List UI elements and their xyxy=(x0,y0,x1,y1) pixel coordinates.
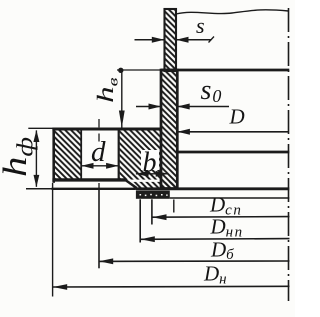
dimension s right arrowhead xyxy=(176,37,189,43)
s tail end tick xyxy=(209,37,215,43)
svg-text:s: s xyxy=(196,13,205,38)
short vertical below gasket right xyxy=(173,200,175,213)
label b halo xyxy=(141,150,159,170)
D_np arrowhead xyxy=(141,236,155,242)
flange bottom chamfer to raised face xyxy=(124,179,136,188)
D arrowhead xyxy=(177,129,190,135)
face plane line under flange xyxy=(52,188,136,190)
dimension D line xyxy=(178,131,290,133)
flange top extension line thin xyxy=(28,127,53,129)
flange face plane line thick xyxy=(136,187,289,190)
h_v bottom arrowhead xyxy=(119,111,125,128)
extension line bolt circle xyxy=(98,190,100,269)
extension line gasket outer xyxy=(139,199,141,242)
dimension s left arrowhead xyxy=(152,37,165,43)
dimension s line left tail xyxy=(135,39,165,41)
svg-text:hв: hв xyxy=(93,77,121,103)
svg-text:Dб: Dб xyxy=(210,238,234,264)
extension line flange OD xyxy=(52,183,54,297)
flange top edge thick xyxy=(52,128,161,131)
weld joint line y=70 thick part xyxy=(161,69,289,72)
D_sp arrowhead xyxy=(152,214,166,220)
D_b arrowhead xyxy=(99,258,113,264)
gasket speckles xyxy=(140,194,168,196)
svg-text:s0: s0 xyxy=(201,75,222,106)
gasket bottom plane line xyxy=(170,197,289,199)
dimension b line xyxy=(136,173,168,175)
flange hatched block right of bolt hole xyxy=(120,130,161,179)
d left arrowhead xyxy=(81,163,93,169)
dimension h_v vertical line xyxy=(121,71,123,128)
dimension s line right tail xyxy=(176,39,211,41)
h_v top junction dot xyxy=(118,68,123,73)
bolt hole centerline dash above flange xyxy=(98,119,100,127)
s0 right arrowhead xyxy=(177,104,190,110)
weld joint line y=70 thin left part (h_v extension) xyxy=(117,69,161,71)
wavy break line at pipe top xyxy=(176,10,289,14)
bolt hole centerline dash inside xyxy=(98,134,100,142)
pipe wall upper section (thickness s) xyxy=(165,9,177,71)
b right arrowhead xyxy=(156,171,169,177)
flange bottom edge thick xyxy=(52,178,125,181)
bolt hole left edge xyxy=(80,130,82,179)
dimension D_sp line xyxy=(152,216,289,219)
dimension D_n line xyxy=(53,285,290,288)
svg-text:d: d xyxy=(91,136,106,168)
bolt hole right edge xyxy=(118,130,120,179)
b left arrowhead xyxy=(136,171,149,177)
gasket (dark with speckles) xyxy=(136,191,170,199)
D_n arrowhead xyxy=(53,284,67,290)
h_f bottom arrowhead xyxy=(34,175,40,187)
flange left outer edge xyxy=(52,128,55,183)
svg-text:Dн: Dн xyxy=(203,262,227,288)
extension line gasket mean xyxy=(151,199,153,224)
dimension D_np line xyxy=(140,238,289,241)
hub wall section (thickness s0) xyxy=(161,70,177,189)
s0 left arrowhead xyxy=(149,104,162,110)
dimension D_b line xyxy=(99,260,290,262)
axis centerline dash-dot xyxy=(288,8,290,301)
raised face (gasket seat) hatched xyxy=(134,182,177,189)
dimension s0 right tail xyxy=(177,106,229,108)
h_f top arrowhead xyxy=(33,130,39,142)
pipe end face line y=152 xyxy=(177,151,289,154)
dimension s0 left tail xyxy=(136,106,161,108)
dimension d line xyxy=(81,165,119,167)
face plane extension line thin (h_f) xyxy=(26,188,52,190)
bolt hole centerline dash below xyxy=(98,183,100,190)
svg-text:D: D xyxy=(229,105,245,129)
flange hatched block left of bolt hole xyxy=(55,130,81,179)
svg-text:hф: hф xyxy=(0,137,38,177)
d right arrowhead xyxy=(106,163,119,169)
dimension h_f vertical line xyxy=(35,130,37,186)
